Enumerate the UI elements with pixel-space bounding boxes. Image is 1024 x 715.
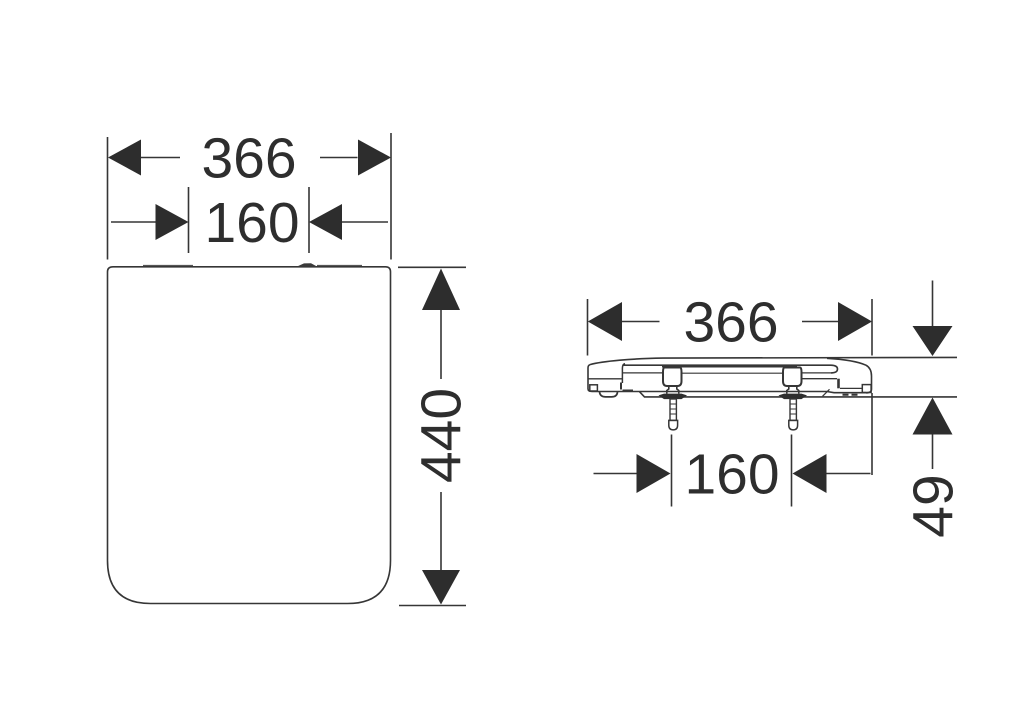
right bolt tip [789,420,798,430]
svg-text:160: 160 [684,443,779,507]
left rubber buffer [600,392,618,397]
lid edge accent right segment [317,264,362,266]
right bolt threads [790,404,797,414]
extension line left bolt (160 right figure) [671,435,673,507]
dimension line 49 lower stem [932,435,934,470]
extension line right bolt (160 right figure) [791,435,793,507]
seat gap bold line between hinges [662,365,797,368]
dimension line 160 right tail (right figure) [827,473,871,475]
dark segment at lid edge bottom [623,390,634,392]
left end foot block [590,385,598,391]
left hinge body [663,368,682,387]
strip bottom line middle segment [682,372,784,374]
dimension line 366 right tail [320,157,358,159]
left hinge wing flange [659,394,688,400]
left hinge neck [667,386,679,394]
dimension line 49 upper stem [932,281,934,328]
svg-text:440: 440 [410,388,474,483]
svg-text:366: 366 [201,127,296,191]
arrowhead 160 left (points right, right figure) [637,454,671,493]
extension line right of 160 (left figure) [308,187,310,253]
left bolt threads [670,404,677,414]
arrowhead 366 right (points right, right figure) [838,302,872,341]
arrowhead 440 bottom (points down) [422,570,460,605]
dimension line 160 left tail [111,221,156,223]
extension line left of 160 (left figure) [188,187,190,253]
lid front edge vertical [622,364,625,383]
right inner ledge line [802,378,838,380]
arrowhead 366 left (points left, right figure) [588,302,622,341]
right step bar [837,379,840,389]
seat profile right end [827,358,872,393]
extension line left of 366 (left figure) [107,137,109,260]
right step diagonal [823,389,830,396]
ground reference line [640,392,958,397]
arrowhead 366 right (points right) [358,140,391,176]
right hinge wing flange [779,394,808,400]
arrowhead 160 right (points left, right figure) [793,454,827,493]
under-lid strip top line [622,365,837,373]
seat profile left nose [588,365,592,392]
extension line top of 440 [398,266,466,268]
extension line left of 366 (right figure) [587,299,589,356]
dimension line 366 left tail [140,157,180,159]
right end foot block [862,385,871,393]
strip bottom line right segment [802,372,832,374]
nose mid line [589,378,623,380]
svg-text:49: 49 [902,474,966,537]
right ledge lower line [840,387,863,389]
dimension line 160 left tail (right figure) [594,473,638,475]
extension line right of 366 (right figure) [871,299,873,356]
seat lid outline (top view) [108,267,391,604]
lid edge accent left segment [143,264,193,266]
arrowhead 49 bottom (points up) [913,398,953,435]
arrowhead 366 left (points left) [108,140,141,176]
dimension line 440 upper stem [440,310,442,379]
strip bottom line left segment [623,372,663,374]
hinge bump on top edge [297,263,317,266]
dimension line 366 right tail (right figure) [802,321,838,323]
right hinge body [783,368,802,387]
extension line bottom of 440 [399,605,466,607]
arrowhead 49 top (points down) [913,326,953,356]
dimension line 160 right tail [342,221,388,223]
extension line right of 366 (left figure) [390,133,392,260]
arrowhead 160 right (points left) [309,204,342,240]
svg-text:366: 366 [683,291,778,355]
left bolt tip [669,420,678,430]
lid front edge lower notch [620,383,622,390]
right buffer dashes [843,394,858,396]
seat profile bottom edge [592,392,866,393]
right hinge neck [787,386,799,394]
extension line right edge down (for 160 right tail) [871,393,873,475]
left bolt shaft [670,399,676,420]
dimension line 440 lower stem [440,492,442,570]
dimension line 366 left tail (right figure) [622,321,660,323]
svg-text:160: 160 [204,191,299,255]
lid top surface and reference line [590,357,957,364]
arrowhead 440 top (points up) [422,269,460,311]
right bolt shaft [790,399,796,420]
arrowhead 160 left (points right) [156,204,189,240]
